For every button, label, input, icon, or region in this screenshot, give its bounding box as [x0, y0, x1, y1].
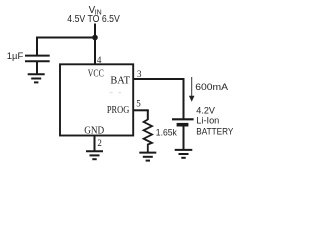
node VIN label — [89, 5, 102, 16]
ground (battery) — [175, 150, 193, 158]
svg-text:5: 5 — [136, 98, 141, 108]
ground (resistor) — [139, 153, 156, 161]
current arrow 600mA — [189, 77, 195, 102]
svg-text:2: 2 — [97, 138, 102, 148]
faint residual mark inside box — [110, 92, 121, 93]
battery label 4.2V Li-Ion BATTERY — [196, 105, 234, 137]
op IC box (battery charger) — [60, 64, 133, 135]
capacitor C1 — [25, 56, 50, 62]
battery BT1 — [172, 119, 194, 124]
wire battery to ground — [183, 126, 185, 150]
wire BAT pin 3 horizontal — [134, 78, 185, 80]
svg-text:1µF: 1µF — [7, 51, 24, 61]
resistor R1 1.65k — [144, 120, 152, 153]
wire GND pin 2 drop — [94, 136, 96, 152]
svg-text:VCC: VCC — [88, 69, 104, 80]
svg-text:1.65k: 1.65k — [156, 126, 177, 137]
svg-text:4.5V TO 6.5V: 4.5V TO 6.5V — [67, 14, 120, 25]
ground (capacitor) — [28, 74, 45, 82]
wire battery vertical drop — [183, 79, 185, 119]
wire VIN vertical drop to pin 4 — [94, 24, 96, 65]
wire top horizontal to capacitor — [36, 37, 95, 39]
node junction dot — [92, 35, 98, 41]
wire capacitor drop — [36, 38, 38, 56]
wire PROG pin 5 horizontal + corner down — [134, 110, 149, 120]
svg-text:3: 3 — [137, 69, 142, 79]
svg-text:Li-Ion: Li-Ion — [196, 115, 219, 126]
ground (pin 2) — [86, 151, 103, 159]
svg-text:PROG: PROG — [107, 105, 130, 116]
svg-text:GND: GND — [84, 126, 104, 137]
svg-text:600mA: 600mA — [195, 81, 229, 92]
svg-text:BAT: BAT — [110, 76, 130, 87]
svg-text:4: 4 — [97, 55, 102, 65]
svg-text:BATTERY: BATTERY — [196, 126, 234, 137]
wire capacitor to ground — [36, 62, 38, 75]
